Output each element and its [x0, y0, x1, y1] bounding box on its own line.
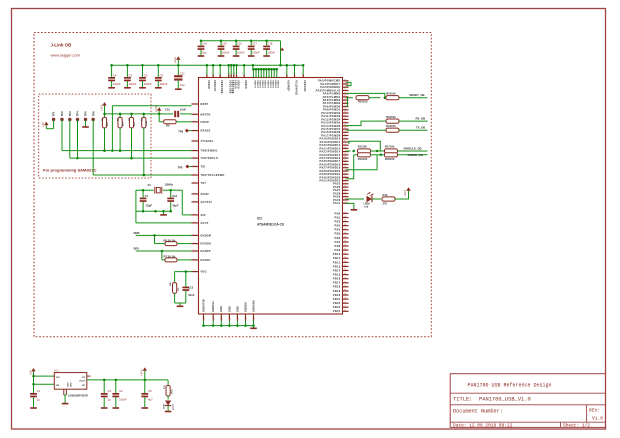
svg-text:100nF: 100nF [237, 50, 245, 54]
svg-text:88: 88 [344, 306, 346, 308]
svg-text:9: 9 [242, 73, 243, 75]
svg-text:PB5: PB5 [335, 232, 341, 236]
svg-text:88: 88 [344, 228, 346, 230]
junction main bus right [279, 64, 282, 67]
wire PA10 ground [346, 203, 354, 209]
svg-text:VDDIO: VDDIO [274, 80, 276, 88]
svg-text:VDDIO: VDDIO [272, 80, 274, 88]
junction cap bus C17 [250, 40, 253, 43]
svg-text:88: 88 [344, 245, 346, 247]
svg-text:J-Link OB: J-Link OB [51, 43, 72, 48]
svg-text:C15: C15 [222, 41, 227, 45]
wire RX net [346, 121, 379, 126]
wire crystal to XIN [171, 190, 192, 215]
svg-text:99: 99 [344, 86, 346, 88]
wire SWDCLK left [346, 150, 355, 153]
svg-text:TP8: TP8 [178, 166, 183, 170]
power +3V3 near cap bus [280, 48, 284, 51]
test point TP9 [178, 129, 189, 134]
svg-text:88: 88 [344, 265, 346, 267]
wire RESET lower [346, 98, 353, 107]
svg-text:C13: C13 [188, 286, 193, 290]
wire TP6 to TDO line [92, 120, 94, 176]
svg-text:VDDIO: VDDIO [234, 80, 237, 89]
svg-text:GND: GND [220, 306, 223, 312]
capacitor C8 [141, 380, 153, 407]
svg-text:C6: C6 [144, 73, 148, 77]
svg-text:99: 99 [344, 147, 346, 149]
IC2 top pin names [207, 80, 306, 95]
junction SWDCLK mid [371, 150, 385, 153]
svg-text:VDDIO: VDDIO [266, 80, 268, 88]
svg-text:DHSDP: DHSDP [201, 250, 211, 253]
svg-text:PB9: PB9 [335, 248, 341, 252]
svg-text:99: 99 [344, 170, 346, 172]
svg-text:99: 99 [344, 173, 346, 175]
svg-text:1µ: 1µ [108, 398, 111, 402]
svg-text:ACLBVAUD: ACLBVAUD [294, 80, 297, 95]
svg-text:DFSDP: DFSDP [201, 259, 211, 262]
svg-text:88: 88 [344, 249, 346, 251]
op-amp IC2 body ATSAM3U1CA-CU [199, 78, 343, 315]
capacitor C12 10nF [165, 107, 187, 117]
svg-text:99: 99 [344, 189, 346, 191]
svg-text:PB10: PB10 [333, 252, 341, 256]
svg-text:PB6: PB6 [335, 236, 341, 240]
svg-text:VBG: VBG [201, 271, 207, 274]
wire PA0 PA1 loop [346, 82, 351, 85]
svg-text:R9: R9 [166, 124, 170, 128]
resistor R17 100 [385, 145, 398, 153]
svg-text:C1: C1 [37, 389, 41, 393]
svg-text:For programming SAM3U2C: For programming SAM3U2C [43, 168, 97, 173]
svg-text:TP5: TP5 [84, 111, 88, 117]
title block frame [450, 374, 605, 428]
power +3V3 at LED [403, 187, 411, 196]
svg-text:9: 9 [214, 319, 215, 321]
wire R10 to R14 [369, 96, 386, 99]
wire NRST net [111, 106, 191, 152]
svg-text:TST: TST [201, 182, 207, 185]
svg-text:XOUT: XOUT [201, 222, 209, 225]
svg-text:9: 9 [301, 73, 302, 75]
svg-text:9: 9 [194, 103, 195, 105]
capacitor C13 [182, 272, 194, 303]
svg-text:9: 9 [227, 73, 228, 75]
svg-text:NRST: NRST [201, 103, 209, 106]
junction SWDIO mid [371, 154, 385, 157]
svg-text:9: 9 [194, 157, 195, 159]
svg-text:www.segger.com: www.segger.com [51, 53, 80, 58]
net label SWDIO_OB [408, 153, 423, 157]
wire LED net [346, 198, 364, 200]
wire SWDIO left [346, 155, 357, 179]
svg-text:R13: R13 [383, 193, 388, 197]
svg-text:ATSAM3U1CA-CU: ATSAM3U1CA-CU [257, 223, 285, 227]
wire VBG net [175, 270, 192, 273]
wire ON [32, 383, 54, 386]
LED LED8 red [364, 192, 374, 209]
svg-text:GND: GND [68, 382, 70, 387]
wire +5V to TP1 [46, 120, 53, 129]
svg-text:C14: C14 [202, 41, 207, 45]
svg-text:PB2: PB2 [335, 219, 341, 223]
svg-text:99: 99 [344, 128, 346, 130]
svg-text:TDO/TRACESWO: TDO/TRACESWO [201, 174, 225, 177]
svg-text:PB18: PB18 [333, 285, 341, 289]
resistor R12 150 [358, 153, 371, 161]
svg-text:JTAGSEL: JTAGSEL [201, 140, 215, 143]
power +3V3 at C12 [154, 105, 161, 114]
svg-text:+5V: +5V [28, 370, 32, 375]
capacitor C17 [248, 41, 260, 55]
wire TMS/SWDIO net [62, 149, 192, 152]
ground under crystal [160, 211, 167, 215]
svg-text:99: 99 [344, 105, 346, 107]
svg-text:88: 88 [344, 241, 346, 243]
svg-text:PB7: PB7 [335, 240, 341, 244]
svg-text:88: 88 [344, 212, 346, 214]
label LD39100PU33R [68, 394, 88, 398]
wire SWDCLK_OB out [398, 146, 428, 151]
svg-text:TP1: TP1 [52, 111, 56, 117]
svg-text:VDDIO: VDDIO [269, 80, 271, 88]
svg-text:C12: C12 [165, 107, 170, 111]
svg-text:VDDIO: VDDIO [277, 80, 279, 88]
svg-text:+5V: +5V [41, 122, 45, 127]
svg-text:10nF: 10nF [188, 293, 195, 297]
svg-text:PAN1780_USB_V1.0: PAN1780_USB_V1.0 [479, 397, 531, 403]
test point TP8 [178, 165, 190, 170]
svg-text:88: 88 [344, 298, 346, 300]
svg-text:88: 88 [344, 236, 346, 238]
ground under C18 [263, 55, 270, 57]
svg-text:PB13: PB13 [333, 264, 341, 268]
svg-text:PB24: PB24 [333, 309, 341, 313]
svg-text:GND: GND [228, 306, 231, 312]
svg-text:12MHz: 12MHz [165, 183, 174, 187]
svg-text:XIN32: XIN32 [201, 193, 210, 196]
wire VOUT rail [87, 379, 168, 382]
svg-text:9: 9 [292, 73, 293, 75]
label IC2 [257, 217, 262, 221]
svg-text:99: 99 [344, 102, 346, 104]
svg-text:100nF: 100nF [252, 50, 260, 54]
svg-text:PB14: PB14 [333, 268, 341, 272]
svg-text:VDDCORE: VDDCORE [220, 80, 223, 94]
resistor R6 39 1% [155, 235, 192, 245]
svg-text:NC: NC [82, 385, 86, 387]
svg-text:VDDCORE: VDDCORE [231, 80, 234, 94]
wire crystal bottom bus [136, 210, 172, 213]
svg-text:99: 99 [344, 124, 346, 126]
svg-text:VIN: VIN [56, 377, 60, 379]
svg-text:TX_OB: TX_OB [416, 126, 425, 130]
svg-text:PA31: PA31 [333, 201, 341, 205]
svg-text:R15100: R15100 [386, 115, 396, 119]
svg-text:TP6: TP6 [91, 111, 95, 117]
svg-text:99: 99 [344, 99, 346, 101]
IC2 top VDDCORE pin group wires [252, 64, 278, 77]
svg-text:+3V3: +3V3 [140, 369, 144, 376]
svg-text:99: 99 [344, 112, 346, 114]
svg-text:R10150: R10150 [358, 100, 368, 104]
wire SWDIO_OB out [398, 154, 428, 156]
svg-text:LED1: LED1 [164, 403, 166, 409]
resistor R5 56k [170, 272, 180, 303]
svg-text:9: 9 [285, 73, 286, 75]
svg-text:TITLE:: TITLE: [453, 397, 472, 403]
IC2 left pin names [201, 103, 225, 274]
svg-text:LD39100PU33R: LD39100PU33R [68, 394, 88, 398]
svg-text:9: 9 [194, 234, 195, 236]
ground under C3 [101, 407, 108, 409]
title block sheet [563, 423, 590, 429]
capacitor C11 [174, 65, 185, 88]
junction cap bus C15 [220, 40, 223, 43]
svg-text:9: 9 [194, 258, 195, 260]
svg-text:99: 99 [344, 163, 346, 165]
svg-text:GND: GND [236, 306, 239, 312]
svg-text:9: 9 [194, 221, 195, 223]
junction on 3V3 bus at C5 [126, 64, 128, 67]
svg-text:88: 88 [344, 261, 346, 263]
svg-text:99: 99 [344, 134, 346, 136]
svg-text:9: 9 [230, 319, 231, 321]
wire R13 to +3V3 [395, 191, 409, 200]
svg-text:88: 88 [344, 302, 346, 304]
regulator IC1 body [54, 373, 87, 390]
svg-text:88: 88 [344, 310, 346, 312]
label IC1 [55, 368, 60, 372]
svg-text:99: 99 [344, 118, 346, 120]
ground under C14 [198, 55, 205, 57]
svg-text:99: 99 [344, 144, 346, 146]
label J-Link OB [51, 43, 72, 48]
wire TP3 to TCK line [69, 120, 71, 159]
ground under C6 [139, 87, 146, 89]
svg-text:GNDPLL: GNDPLL [212, 300, 215, 312]
svg-text:9: 9 [194, 250, 195, 252]
title block date [453, 423, 513, 429]
svg-text:TP2: TP2 [60, 111, 64, 117]
svg-text:99: 99 [344, 176, 346, 178]
svg-text:IC1: IC1 [55, 368, 60, 372]
svg-text:88: 88 [344, 232, 346, 234]
svg-text:9: 9 [254, 319, 255, 321]
svg-text:PB8: PB8 [335, 244, 341, 248]
svg-text:9: 9 [205, 73, 206, 75]
svg-text:9: 9 [194, 149, 195, 151]
svg-text:99: 99 [344, 153, 346, 155]
svg-text:PB0: PB0 [335, 211, 341, 215]
svg-text:9: 9 [194, 192, 195, 194]
svg-text:99: 99 [344, 115, 346, 117]
svg-text:99: 99 [344, 131, 346, 133]
junction cap bus C14 [200, 40, 203, 43]
svg-text:DP5: DP5 [134, 247, 140, 251]
resistor R10 150 [356, 96, 369, 104]
svg-text:VDDIO: VDDIO [253, 80, 255, 88]
svg-text:C9: C9 [160, 73, 164, 77]
svg-text:270: 270 [383, 201, 388, 205]
svg-text:TMS/SWDIO: TMS/SWDIO [201, 150, 218, 153]
ground under C11 [175, 88, 182, 90]
capacitor C14 [198, 41, 208, 55]
IC2 bottom pin names [202, 299, 255, 312]
svg-text:NRSTB: NRSTB [201, 113, 211, 116]
pin PG stub [87, 375, 91, 377]
svg-text:TCK/SWCLK: TCK/SWCLK [201, 157, 219, 160]
resistor R9 [164, 120, 177, 128]
junction on 3V3 bus at C6 [141, 64, 144, 67]
svg-text:88: 88 [344, 290, 346, 292]
svg-text:green: green [172, 403, 174, 410]
wire SWD upper rail [349, 141, 380, 151]
resistor R16 100 [386, 124, 399, 132]
svg-text:9: 9 [194, 120, 195, 122]
svg-text:99: 99 [344, 195, 346, 197]
ground under C16 [233, 55, 240, 57]
wire LED to R13 [372, 198, 381, 200]
svg-text:R17100: R17100 [385, 145, 395, 149]
svg-text:VDDIN: VDDIN [207, 80, 210, 89]
title block TITLE row [453, 397, 531, 403]
svg-text:+3V3: +3V3 [154, 105, 158, 112]
power +5V input [28, 368, 35, 393]
title block REV [589, 407, 603, 421]
ground under IC2 bottom pins [250, 326, 257, 329]
test points TP1-TP6 [52, 111, 96, 121]
ground under TP5 [82, 126, 89, 128]
svg-text:88: 88 [344, 285, 346, 287]
svg-text:V1.0: V1.0 [592, 416, 603, 422]
svg-text:10nF: 10nF [180, 107, 187, 111]
wire cap bus C14-C18 [201, 41, 281, 66]
svg-text:C5: C5 [129, 73, 133, 77]
svg-text:Document Number:: Document Number: [453, 409, 503, 415]
wire TP8 to TDI [189, 166, 191, 168]
wire +3V3 top bus [112, 64, 304, 66]
wire TP4 to TCK line [76, 120, 79, 160]
resistor R1 47k [102, 113, 109, 152]
svg-text:88: 88 [344, 216, 346, 218]
svg-text:9: 9 [204, 319, 205, 321]
svg-text:C7: C7 [145, 194, 149, 198]
svg-text:C8: C8 [148, 389, 152, 393]
label ATSAM3U1CA-CU [257, 223, 285, 227]
net label DP5 [134, 247, 140, 251]
svg-text:18pF: 18pF [172, 203, 179, 207]
svg-text:100k: 100k [146, 120, 148, 126]
svg-text:PAN1780 USB Reference Design: PAN1780 USB Reference Design [468, 382, 552, 388]
svg-text:DM5: DM5 [134, 231, 140, 235]
wire TX net [346, 129, 386, 131]
svg-text:C10: C10 [172, 194, 177, 198]
junction at C11 [177, 64, 180, 67]
svg-text:ON: ON [56, 385, 60, 387]
svg-text:XOUT32: XOUT32 [201, 201, 213, 204]
svg-text:88: 88 [344, 269, 346, 271]
svg-text:9: 9 [234, 73, 235, 75]
svg-text:99: 99 [344, 202, 346, 204]
svg-text:99: 99 [344, 89, 346, 91]
ground under C4 [108, 87, 115, 89]
junction on 3V3 bus at C9 [157, 64, 160, 67]
capacitor C1 [30, 389, 41, 407]
svg-text:9: 9 [194, 129, 195, 131]
svg-text:9: 9 [218, 73, 219, 75]
svg-text:VDDOUT: VDDOUT [213, 80, 216, 92]
svg-text:1µ: 1µ [37, 398, 40, 402]
svg-text:10µ: 10µ [180, 83, 185, 87]
svg-text:99: 99 [344, 192, 346, 194]
svg-text:PB3: PB3 [335, 224, 341, 228]
svg-text:VDDIO: VDDIO [259, 80, 261, 88]
ground under C5 [124, 87, 131, 89]
svg-text:PB19: PB19 [333, 289, 341, 293]
label www.segger.com [51, 53, 80, 58]
svg-text:4µ7: 4µ7 [148, 398, 153, 402]
ground under C17 [248, 55, 255, 57]
wire +3V3 pullup bus [105, 113, 160, 115]
IC2 right pin names PA bank [316, 79, 341, 205]
svg-text:R6 39 1%: R6 39 1% [164, 238, 176, 242]
J-Link OB section dashed box [34, 33, 431, 337]
svg-text:PB12: PB12 [333, 260, 341, 264]
svg-text:9: 9 [194, 140, 195, 142]
svg-text:TDI: TDI [201, 166, 206, 169]
junction C12 node [158, 113, 161, 116]
svg-text:DFSDM: DFSDM [201, 243, 211, 246]
wire DHSDP net [136, 250, 192, 253]
svg-text:9: 9 [194, 182, 195, 184]
svg-text:R16100: R16100 [386, 124, 396, 128]
resistor R3 47k [129, 113, 136, 160]
wire crystal to XOUT [136, 190, 192, 223]
svg-text:IC2: IC2 [257, 217, 262, 221]
wire to R9 [159, 114, 163, 122]
svg-text:99: 99 [344, 166, 346, 168]
svg-text:9: 9 [222, 319, 223, 321]
capacitor C7 18pF [140, 189, 153, 211]
power +5V in programming box [41, 122, 48, 129]
wire NRSTB net [159, 113, 191, 115]
junction cap bus C18 [265, 40, 268, 43]
svg-text:88: 88 [344, 277, 346, 279]
svg-text:9: 9 [211, 73, 212, 75]
svg-text:PG: PG [82, 377, 85, 379]
wire TP5 to ground [85, 120, 87, 127]
svg-text:99: 99 [344, 182, 346, 184]
wire RESET upper branch [346, 93, 385, 97]
svg-text:9: 9 [232, 73, 233, 75]
svg-text:C16: C16 [237, 41, 242, 45]
wire TP2 to TMS line [61, 120, 63, 151]
svg-text:PB16: PB16 [333, 277, 341, 281]
svg-text:PB21: PB21 [333, 297, 341, 301]
svg-text:REV:: REV: [589, 407, 600, 413]
resistor R7 39 1% [162, 251, 192, 262]
svg-text:C11: C11 [180, 72, 185, 76]
wire TP9 to ERASE [189, 130, 192, 132]
svg-text:PB15: PB15 [333, 273, 341, 277]
svg-text:9: 9 [246, 319, 247, 321]
svg-text:88: 88 [344, 253, 346, 255]
svg-text:10µ: 10µ [202, 50, 207, 54]
ground under C1 [30, 407, 37, 409]
svg-text:88: 88 [344, 257, 346, 259]
